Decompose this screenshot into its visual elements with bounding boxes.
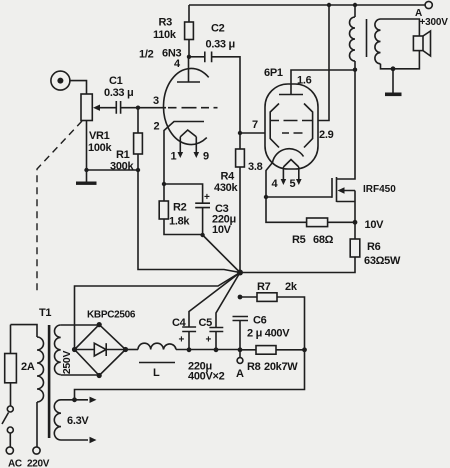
svg-text:KBPC2506: KBPC2506	[87, 310, 136, 321]
svg-text:L: L	[153, 367, 160, 379]
svg-text:1.8k: 1.8k	[169, 216, 190, 228]
svg-text:2A: 2A	[21, 361, 35, 373]
svg-text:6P1: 6P1	[264, 67, 283, 79]
svg-text:+: +	[206, 335, 212, 346]
svg-text:R2: R2	[173, 202, 187, 214]
svg-text:430k: 430k	[214, 182, 238, 194]
svg-text:R3: R3	[159, 17, 173, 29]
svg-text:R5: R5	[292, 234, 306, 246]
svg-text:+300V: +300V	[420, 17, 449, 28]
svg-text:R6: R6	[367, 241, 381, 253]
svg-text:C1: C1	[109, 75, 123, 87]
svg-text:C4: C4	[172, 317, 187, 329]
svg-text:2.9: 2.9	[319, 129, 334, 141]
svg-text:9: 9	[203, 151, 209, 163]
svg-text:400V×2: 400V×2	[188, 371, 225, 383]
svg-text:7: 7	[252, 119, 258, 131]
svg-text:IRF450: IRF450	[363, 184, 396, 195]
svg-text:2k: 2k	[285, 281, 298, 293]
svg-text:+: +	[204, 192, 210, 203]
svg-text:220V: 220V	[27, 459, 50, 468]
svg-text:2 μ 400V: 2 μ 400V	[247, 328, 290, 340]
svg-text:5: 5	[290, 178, 296, 190]
svg-text:10V: 10V	[365, 219, 385, 231]
svg-text:2: 2	[154, 121, 160, 133]
svg-text:3.8: 3.8	[248, 161, 263, 173]
svg-text:C5: C5	[199, 317, 213, 329]
svg-text:20k7W: 20k7W	[264, 361, 298, 373]
svg-text:10V: 10V	[212, 224, 232, 236]
svg-text:AC: AC	[8, 459, 22, 468]
svg-text:100k: 100k	[88, 142, 112, 154]
svg-text:0.33 μ: 0.33 μ	[104, 87, 133, 99]
svg-text:C6: C6	[253, 315, 267, 327]
svg-text:R4: R4	[221, 171, 236, 183]
svg-text:300k: 300k	[110, 161, 134, 173]
svg-text:A: A	[236, 368, 244, 380]
svg-text:6.3V: 6.3V	[67, 415, 89, 427]
svg-text:R8: R8	[247, 361, 261, 373]
svg-text:+: +	[179, 335, 185, 346]
svg-text:1.6: 1.6	[297, 75, 312, 87]
svg-text:T1: T1	[39, 307, 51, 319]
svg-text:R7: R7	[257, 281, 271, 293]
svg-text:1: 1	[171, 151, 177, 163]
svg-text:VR1: VR1	[89, 130, 110, 142]
svg-text:R1: R1	[116, 149, 130, 161]
svg-text:3: 3	[153, 95, 159, 107]
svg-text:250V: 250V	[61, 351, 73, 375]
svg-text:63Ω5W: 63Ω5W	[364, 255, 401, 267]
svg-text:110k: 110k	[153, 29, 177, 41]
svg-text:C2: C2	[211, 23, 225, 35]
svg-text:68Ω: 68Ω	[313, 234, 334, 246]
svg-text:1/2: 1/2	[139, 49, 154, 61]
svg-text:0.33 μ: 0.33 μ	[206, 39, 235, 51]
